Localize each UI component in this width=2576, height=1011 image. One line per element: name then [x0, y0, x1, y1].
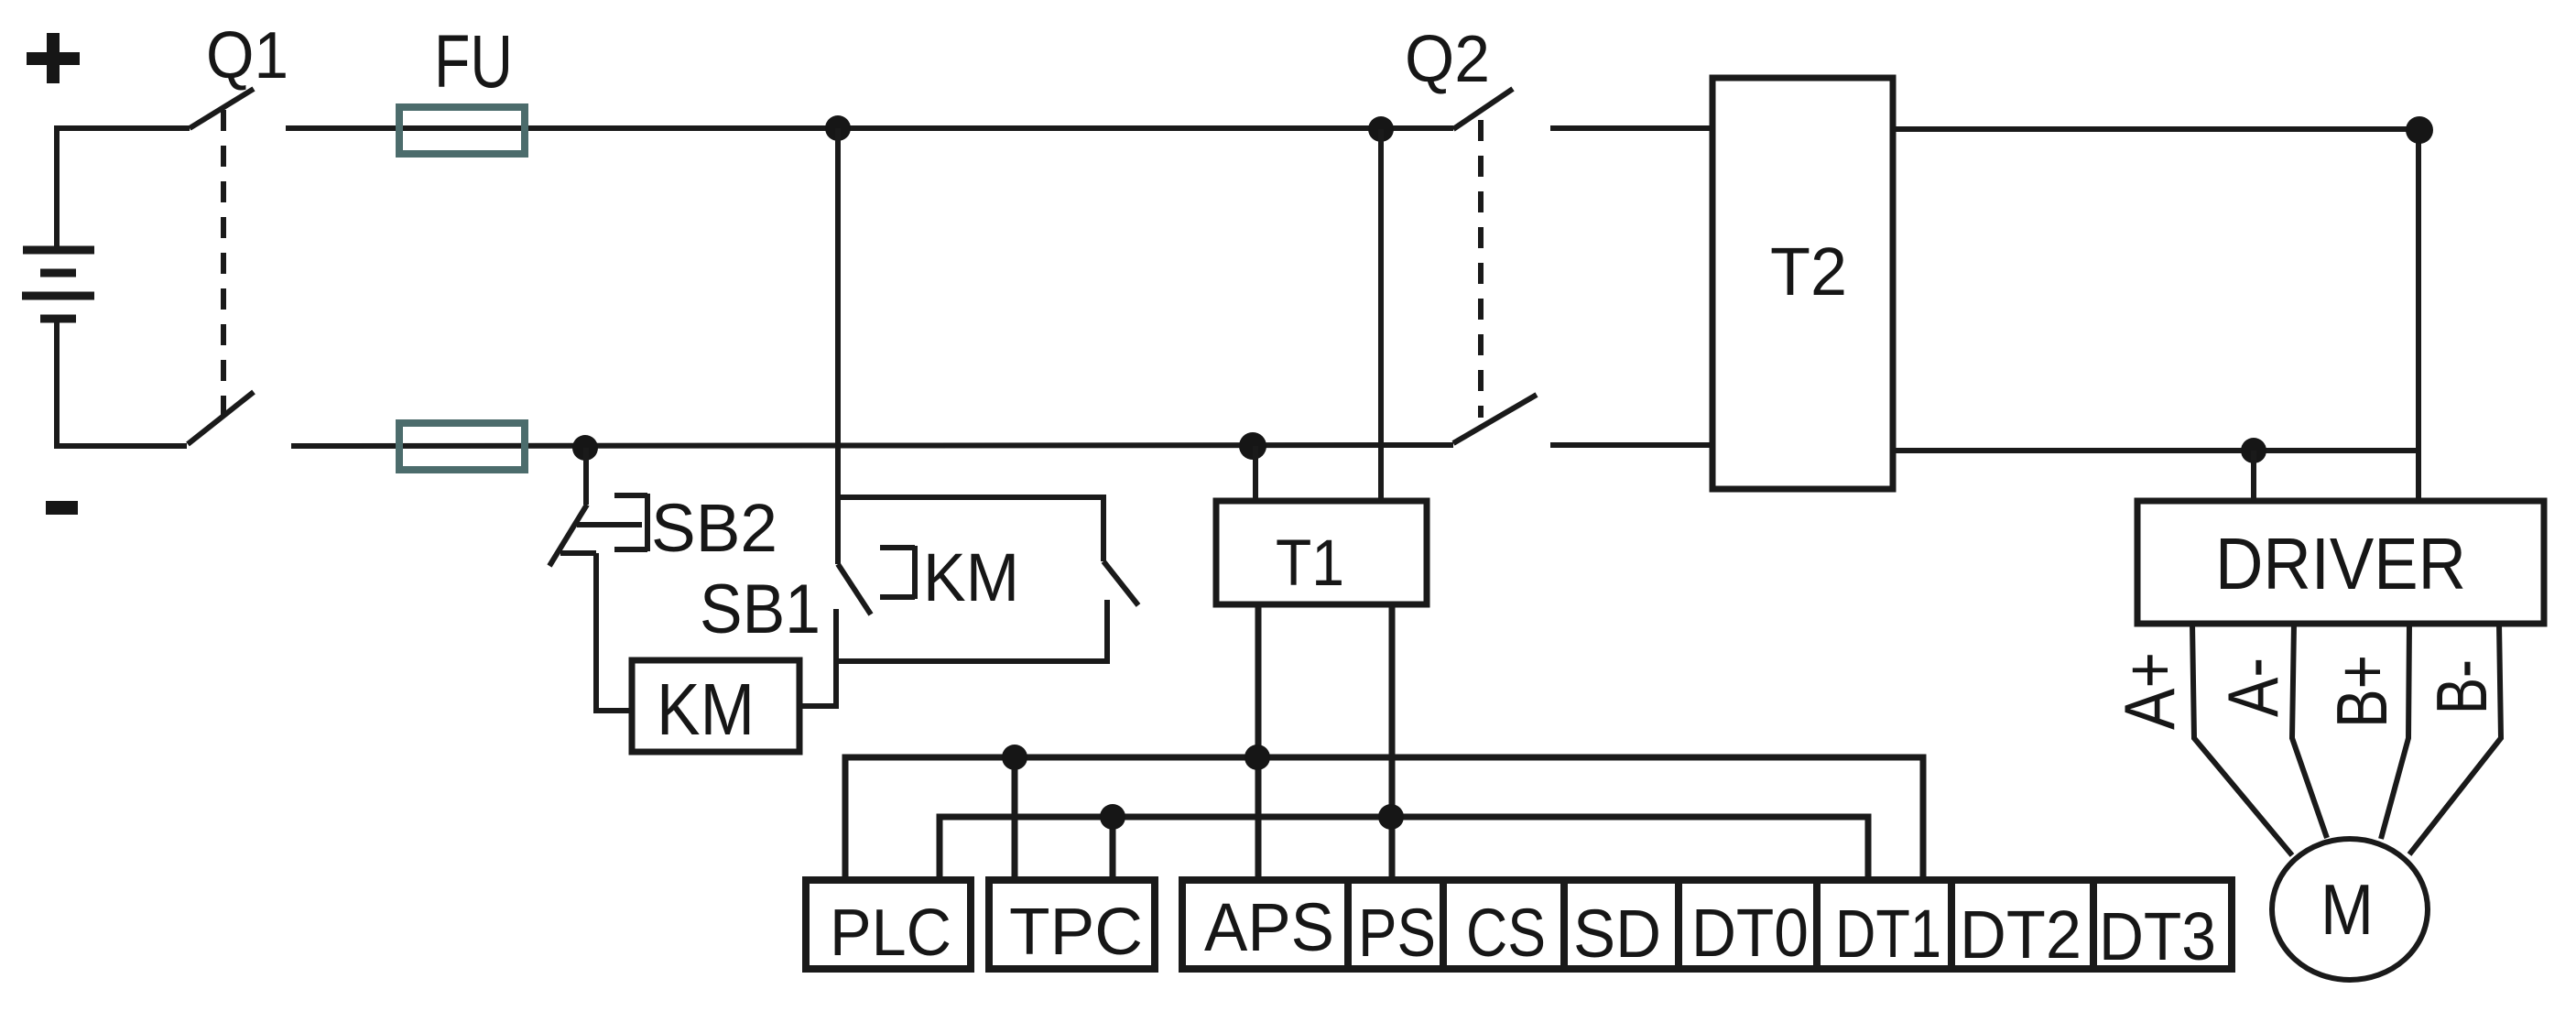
wire driver output B+	[2381, 624, 2409, 839]
svg-text:SB2: SB2	[651, 490, 777, 566]
switch Q1 bottom pole blade	[188, 392, 254, 444]
node junction top rail KM branch	[825, 115, 851, 141]
node junction bottom right driver pin	[2241, 438, 2266, 463]
wire top rail Q2 to T2	[1550, 125, 1712, 131]
svg-text:PS: PS	[1358, 895, 1436, 971]
module DT0 box	[1679, 880, 1817, 969]
node junction bottom rail T1 branch	[1239, 432, 1266, 460]
node junction top right	[2406, 116, 2433, 144]
pushbutton SB2 bottom contact stub	[560, 550, 596, 556]
svg-text:DRIVER: DRIVER	[2215, 523, 2466, 604]
wire driver output A+	[2192, 624, 2292, 855]
wire driver left top pin	[2251, 451, 2256, 501]
wire battery plus lead to Q1	[57, 128, 190, 249]
label minus terminal	[46, 501, 78, 515]
switch Q1 top pole blade	[190, 89, 254, 128]
label plus terminal	[27, 33, 80, 83]
transformer T1 box	[1216, 501, 1427, 604]
switch Q1 link dashed	[221, 110, 226, 417]
driver U1 box	[2137, 501, 2544, 624]
wire T1 output right to PS	[1389, 604, 1396, 880]
fuse FU top element	[399, 107, 525, 154]
svg-text:DT0: DT0	[1691, 895, 1809, 971]
wire driver output B-	[2409, 624, 2501, 854]
wire T1 output left to APS	[1255, 604, 1262, 880]
motor M circle	[2272, 839, 2428, 980]
pushbutton SB2 top lead	[583, 448, 589, 505]
svg-text:M: M	[2321, 869, 2374, 950]
switch Q2 link dashed	[1478, 120, 1484, 418]
contactor coil KM box	[632, 660, 799, 752]
wire bus upper	[845, 757, 1923, 880]
wire bottom rail from Q1 to Q2	[291, 445, 1453, 446]
svg-text:A-: A-	[2212, 658, 2293, 717]
switch Q2 bottom pole blade	[1453, 395, 1537, 443]
wire bus lower TPC drop	[1110, 817, 1116, 880]
module PS box	[1348, 880, 1443, 969]
svg-text:DT3: DT3	[2099, 898, 2216, 974]
module CS box	[1443, 880, 1564, 969]
svg-text:FU: FU	[434, 20, 513, 103]
svg-text:DT1: DT1	[1835, 896, 1941, 972]
module APS box	[1182, 880, 1348, 969]
module DT3 box	[2093, 880, 2232, 969]
wire T2 secondary bottom to driver	[1893, 448, 2418, 453]
wire bus lower	[940, 817, 1868, 880]
module TPC box	[989, 880, 1155, 969]
svg-text:B+: B+	[2321, 655, 2402, 728]
wire bottom rail to T1 left pin	[1253, 446, 1258, 502]
transformer T2 box	[1712, 78, 1893, 489]
wire SB1 branch top	[838, 497, 1103, 561]
svg-text:PLC: PLC	[830, 897, 951, 970]
module DT1 box	[1817, 880, 1951, 969]
svg-text:T1: T1	[1276, 527, 1344, 600]
wire battery minus lead to bottom rail	[57, 322, 187, 446]
svg-text:KM: KM	[657, 669, 755, 750]
svg-text:SB1: SB1	[700, 571, 821, 648]
svg-text:DT2: DT2	[1960, 897, 2081, 973]
battery BT plates	[22, 250, 94, 319]
svg-text:KM: KM	[923, 539, 1019, 615]
contact KM aux feed wire from top rail	[835, 128, 841, 564]
wire T2 secondary top to driver	[1893, 129, 2418, 501]
node junction bus lower PS	[1378, 804, 1404, 830]
node junction top rail T1 branch	[1368, 116, 1394, 142]
wire driver output A-	[2292, 624, 2327, 838]
contact KM aux blade	[838, 564, 871, 614]
svg-text:APS: APS	[1204, 889, 1334, 965]
pushbutton SB1 blade	[1103, 561, 1138, 605]
contact KM aux actuator bracket	[880, 546, 915, 599]
wire SB2 to KM coil	[596, 553, 632, 711]
switch Q2 top pole blade	[1453, 89, 1513, 129]
node junction bus lower TPC	[1100, 804, 1125, 830]
wire SB1 branch bottom	[836, 600, 1107, 661]
pushbutton SB2 actuator bracket	[614, 494, 647, 551]
module DT2 box	[1951, 880, 2093, 969]
svg-text:A+: A+	[2109, 652, 2190, 730]
wire KM coil right to SB1 node	[799, 609, 836, 706]
wire top rail to T1 right pin	[1378, 129, 1384, 502]
svg-text:Q1: Q1	[206, 19, 288, 92]
fuse FU bottom element	[399, 423, 525, 470]
pushbutton SB2 blade	[549, 505, 587, 566]
svg-text:Q2: Q2	[1405, 23, 1490, 96]
wire bottom rail Q2 to T2	[1550, 442, 1712, 448]
pushbutton SB2 contact bar	[577, 522, 642, 527]
wire bus upper TPC drop	[1012, 757, 1018, 880]
module PLC box	[806, 880, 971, 969]
svg-text:TPC: TPC	[1009, 896, 1143, 969]
node junction bottom rail SB2 branch	[572, 435, 598, 461]
svg-text:SD: SD	[1573, 896, 1661, 972]
wire top rail from Q1 to Q2	[286, 125, 1453, 131]
module SD box	[1564, 880, 1679, 969]
svg-text:B-: B-	[2421, 659, 2502, 714]
svg-text:CS: CS	[1466, 895, 1546, 971]
node junction bus upper T1	[1245, 745, 1270, 770]
node junction bus upper TPC	[1002, 745, 1027, 770]
svg-text:T2: T2	[1770, 234, 1847, 310]
